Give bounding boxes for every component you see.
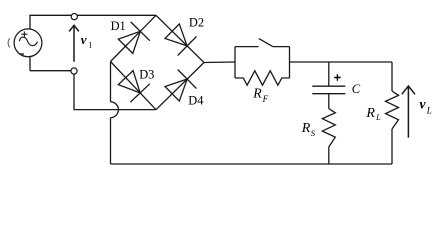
diode D4 triangle — [165, 79, 187, 101]
wire bridge edge bottom-right — [156, 63, 204, 110]
wire bridge edge left-top — [111, 15, 157, 61]
wire switch right lead — [273, 46, 290, 48]
wire filter left vertical — [234, 47, 236, 78]
wire filter right vertical — [289, 47, 291, 78]
wire source bottom lead — [29, 57, 31, 71]
wire source top lead — [29, 15, 31, 29]
wire bridge left node down upper — [110, 62, 112, 102]
wire bottom rail — [111, 163, 393, 165]
capacitor C top plate — [312, 85, 345, 87]
svg-text:L: L — [375, 112, 381, 122]
diode D2 triangle — [165, 24, 187, 46]
wire output node down — [391, 62, 393, 91]
svg-text:1: 1 — [88, 40, 92, 50]
svg-text:D3: D3 — [139, 68, 154, 82]
diode D1 cathode bar — [131, 22, 150, 41]
resistor RF zigzag — [235, 71, 290, 85]
diode D4 cathode bar — [178, 70, 197, 89]
capacitor plus sign — [334, 74, 340, 80]
svg-text:D2: D2 — [189, 15, 204, 29]
wire RL bottom lead — [391, 129, 393, 164]
svg-text:D1: D1 — [111, 19, 126, 33]
terminal node bottom — [71, 68, 77, 74]
wire switch left lead — [235, 46, 259, 48]
wire top rail — [29, 14, 156, 16]
v1 arrow — [69, 25, 79, 62]
wire filter to output node — [290, 61, 393, 63]
wire cap top lead — [328, 62, 330, 86]
vL arrow — [402, 86, 415, 138]
wire hop over return wire — [111, 102, 119, 118]
svg-text:R: R — [301, 121, 311, 136]
AC source circle — [14, 29, 42, 57]
resistor RL zigzag — [386, 91, 399, 129]
diode D2 cathode bar — [178, 36, 197, 55]
svg-text:D4: D4 — [188, 94, 203, 108]
capacitor C bottom plate — [312, 93, 345, 95]
svg-text:C: C — [352, 82, 361, 96]
svg-text:R: R — [365, 106, 375, 121]
svg-text:S: S — [311, 128, 316, 138]
diode D1 triangle — [118, 31, 140, 53]
resistor RS zigzag — [322, 109, 335, 147]
svg-text:v: v — [419, 98, 426, 113]
wire source bottom to terminal node — [30, 70, 71, 72]
diode D3 cathode bar — [130, 84, 150, 102]
AC source sine wave — [19, 37, 37, 46]
diode D3 triangle — [118, 71, 140, 93]
AC source minus sign — [20, 53, 24, 55]
wire bridge left node down lower — [110, 118, 112, 164]
wire bridge edge left-bottom — [111, 62, 157, 110]
svg-text:F: F — [262, 94, 269, 104]
wire cap to RS — [328, 94, 330, 109]
switch S blade — [259, 39, 273, 47]
svg-text:R: R — [252, 85, 262, 100]
wire RS bottom lead — [328, 147, 330, 164]
wire bridge right node to filter — [204, 61, 235, 64]
svg-text:v: v — [81, 32, 87, 47]
wire terminal to bridge bottom node — [74, 74, 156, 110]
terminal node top — [71, 14, 77, 20]
svg-text:L: L — [426, 105, 432, 115]
wire bridge edge top-right — [156, 15, 204, 62]
AC source plus sign — [21, 32, 27, 37]
stray mark (scan artifact) — [8, 38, 10, 47]
